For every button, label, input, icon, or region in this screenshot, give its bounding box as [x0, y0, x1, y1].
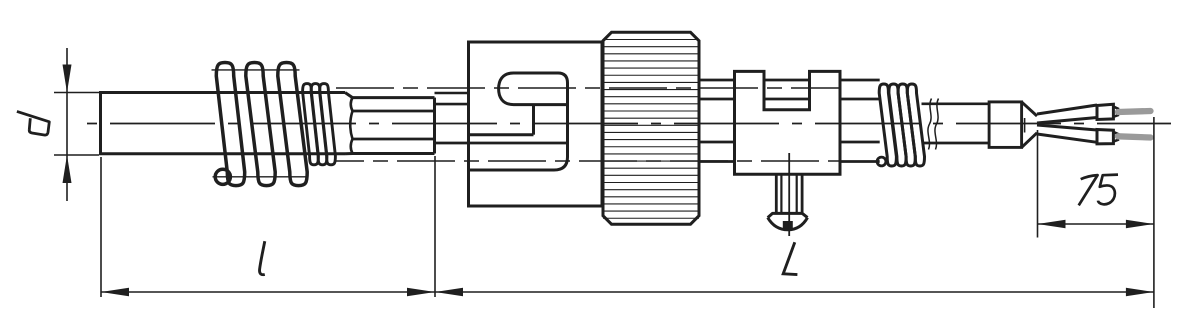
screw with round head	[768, 153, 808, 236]
label L	[783, 242, 797, 274]
tight coil windings	[303, 84, 336, 165]
cable lines hex-to-connector	[435, 93, 568, 143]
bayonet slot	[470, 73, 568, 170]
probe tube	[101, 93, 353, 154]
right coil spring	[877, 84, 924, 166]
label l	[260, 241, 265, 275]
cable lines knurl-to-coil	[699, 80, 880, 162]
ferrule	[989, 102, 1025, 147]
label d	[17, 111, 49, 135]
upper prong with terminal	[1037, 104, 1151, 123]
cable coil-to-ferrule	[922, 104, 989, 143]
spring (helical, left)	[212, 63, 309, 186]
mounting bracket	[735, 71, 841, 174]
hex fitting	[350, 98, 434, 154]
fork taper	[1022, 102, 1037, 147]
upper aux centerline	[336, 87, 840, 89]
dimension L	[435, 117, 1154, 308]
knurled ring	[603, 32, 699, 224]
connector body	[469, 42, 603, 206]
dimension 75	[1038, 130, 1154, 238]
break marks	[928, 99, 939, 150]
centerline main axis	[87, 123, 1171, 125]
dimension d	[54, 48, 99, 201]
lower prong with terminal	[1037, 125, 1151, 144]
lower aux centerline	[336, 160, 840, 162]
dimension l	[101, 156, 435, 297]
label 75	[1079, 175, 1118, 206]
